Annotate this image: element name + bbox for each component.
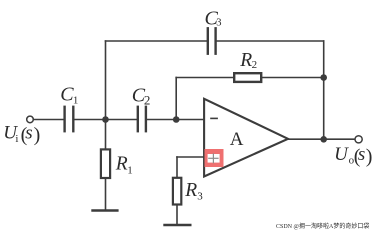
node A junction dot: [102, 116, 109, 123]
op-amp minus sign: [211, 117, 217, 119]
svg-text:): ): [34, 124, 41, 146]
wire R3 to ground: [176, 205, 178, 225]
wire node A up to C3 rail: [105, 41, 107, 120]
svg-text:i: i: [15, 133, 18, 145]
label Uo(s): [334, 144, 372, 167]
wire C2 to op-amp inverting input: [147, 119, 204, 121]
label C2: [132, 85, 151, 108]
output terminal U_o(s): [355, 136, 362, 143]
wire R2 rail left segment: [176, 77, 234, 79]
wire input to C1: [34, 119, 64, 121]
label R3: [184, 180, 203, 202]
wire node A down to R1: [105, 120, 107, 150]
label Ui(s): [3, 122, 40, 145]
svg-text:2: 2: [252, 59, 258, 71]
wire down to R3: [176, 157, 178, 178]
input terminal U_i(s): [27, 116, 34, 123]
svg-text:s: s: [358, 144, 365, 165]
capacitor C2: [138, 107, 146, 131]
label C3: [205, 8, 222, 30]
wire R2 rail right segment: [262, 77, 324, 79]
svg-text:2: 2: [144, 92, 151, 107]
svg-text:A: A: [230, 129, 244, 150]
label R2: [239, 50, 257, 71]
resistor R3: [173, 178, 181, 205]
wire op-amp non-inverting input: [177, 156, 204, 158]
wire R1 to ground: [105, 178, 107, 210]
label R1: [115, 154, 133, 177]
wire C3 rail right segment: [217, 40, 324, 42]
svg-text:): ): [366, 145, 373, 167]
R2/output rail junction dot: [320, 74, 327, 81]
svg-text:s: s: [25, 122, 32, 143]
red highlight box around plus input: [205, 149, 224, 167]
wire right vertical rail: [323, 41, 325, 139]
svg-text:1: 1: [73, 94, 79, 106]
wire node B up to R2 rail: [175, 78, 177, 120]
wire C3 rail left segment: [106, 40, 207, 42]
wire node A to C2: [106, 119, 137, 121]
svg-text:U: U: [334, 144, 349, 165]
label C1: [60, 84, 78, 107]
resistor R2: [234, 73, 261, 82]
svg-text:CSDN @拥一淘哆啦A梦的奇妙口袋: CSDN @拥一淘哆啦A梦的奇妙口袋: [276, 222, 369, 230]
output node junction dot: [320, 136, 327, 143]
node B junction dot: [173, 116, 180, 123]
ground under R3: [165, 224, 191, 226]
capacitor C1: [65, 107, 74, 131]
svg-text:R: R: [184, 180, 197, 201]
op-amp U1 triangle: [204, 99, 288, 177]
wire C1 to node A: [75, 119, 106, 121]
svg-text:3: 3: [216, 17, 221, 28]
svg-text:3: 3: [197, 190, 203, 202]
wire op-amp output: [289, 138, 356, 140]
capacitor C3: [208, 28, 216, 53]
ground under R1: [93, 209, 118, 211]
svg-text:1: 1: [127, 165, 133, 177]
svg-text:R: R: [115, 154, 128, 175]
svg-text:R: R: [239, 50, 252, 71]
resistor R1: [101, 149, 110, 178]
